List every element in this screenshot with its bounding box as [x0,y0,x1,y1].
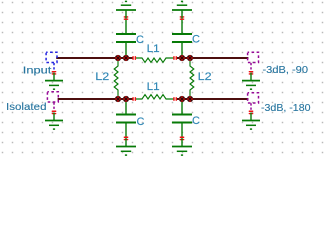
junction dot node A (118,58) [115,55,121,61]
pin marker isolated ground pin [52,111,57,115]
ground (isolated port) [45,113,63,130]
capacitor C top-left [116,18,136,58]
junction dot node C (182,58) [179,55,185,61]
wire bottom bus: L1 right pin to output port [177,98,249,100]
port P4 Isolated (dashed magenta box with ground lead) [47,92,58,110]
junction dot node B (126,58) [123,55,129,61]
svg-text:-3dB, -90: -3dB, -90 [263,64,309,76]
svg-text:-3dB, -180: -3dB, -180 [261,102,311,114]
pin marker port2 ground pin [249,71,254,75]
svg-text:C: C [192,33,200,45]
pin marker input ground pin [52,71,57,75]
ground (input port) [45,73,63,90]
junction dot node G (182,99) [179,96,185,102]
ground (bottom-right) [172,139,192,156]
port P3 -3dB -180 (dashed magenta box, bottom right) [248,93,259,111]
svg-text:Isolated: Isolated [6,101,47,113]
ground (top-right) [172,1,192,18]
port P1 Input (dashed blue box with ground lead) [46,52,57,70]
capacitor C bottom-left [116,99,136,139]
ground (top-left) [116,1,136,18]
svg-text:L2: L2 [198,71,212,83]
wire top bus: L1 right pin to output port [177,57,249,59]
svg-text:L1: L1 [147,81,160,93]
ground (bottom-left) [116,139,136,156]
capacitor C top-right [172,18,192,58]
inductor L1 top [136,58,174,62]
pin marker port3 ground pin [249,111,254,115]
port P2 -3dB -90 (dashed magenta box, top right) [248,52,259,70]
junction dot node D (190,58) [187,55,193,61]
pin marker L1-top right [173,56,177,60]
junction dot node E (118,99) [115,96,121,102]
svg-text:C: C [192,115,200,127]
pin marker cap/gnd junction top-right [180,16,185,20]
pin marker cap/gnd junction top-left [124,16,129,20]
inductor L1 bottom [136,95,174,99]
svg-text:Input: Input [23,65,52,77]
svg-text:L1: L1 [147,43,160,55]
capacitor C bottom-right [172,99,192,139]
wire top bus: input port to L1 left pin [56,57,133,59]
ground (port2) [242,73,260,90]
inductor L2 right [190,58,194,99]
wire bottom bus: isolated port to L1 left pin [58,98,133,100]
junction dot node F (126,99) [123,96,129,102]
pin marker L1-bottom left [132,97,136,101]
svg-text:C: C [136,34,144,46]
svg-text:L2: L2 [95,71,109,83]
ground (port3) [242,113,260,130]
pin marker cap/gnd junction bottom-left [124,137,129,141]
svg-text:C: C [137,116,145,128]
pin marker L1-top left [132,56,136,60]
junction dot node H (190,99) [187,96,193,102]
inductor L2 left [114,58,118,99]
pin marker cap/gnd junction bottom-right [180,137,185,141]
pin marker L1-bottom right [173,97,177,101]
